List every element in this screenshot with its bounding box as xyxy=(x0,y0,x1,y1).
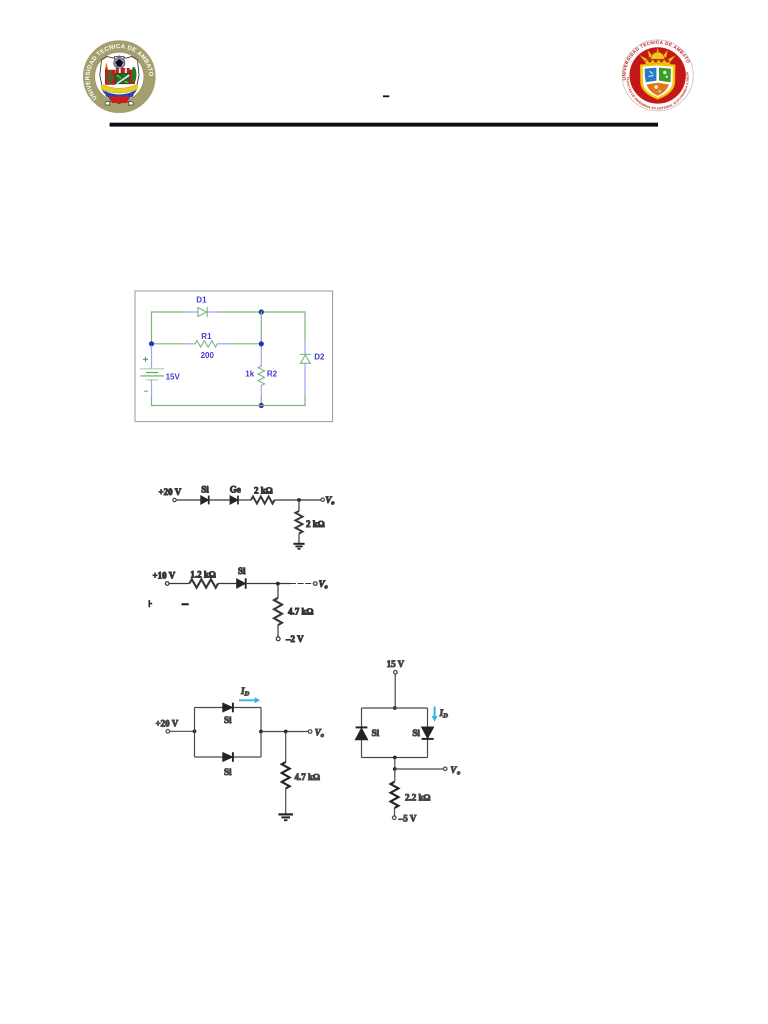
stray dash xyxy=(182,603,189,605)
shield outer gold xyxy=(640,63,675,99)
wire stub (blue) left of R1 xyxy=(184,343,195,345)
right tree xyxy=(132,67,137,84)
svg-text:–5 V: –5 V xyxy=(398,813,417,823)
wire resistor to bias terminal xyxy=(394,808,396,816)
svg-text:Vo: Vo xyxy=(319,579,328,591)
svg-text:2 kΩ: 2 kΩ xyxy=(306,519,325,529)
wire right vertical xyxy=(260,708,262,758)
battery plus mark xyxy=(144,357,148,361)
node junction xyxy=(297,498,301,502)
wire stub (blue) battery bottom lead xyxy=(151,380,153,398)
wire node down xyxy=(298,500,300,511)
wire: centre vertical bottom xyxy=(260,398,262,406)
wire stub (blue) above R2 xyxy=(260,348,262,366)
ground symbol xyxy=(278,814,293,820)
diode Si top (filled) xyxy=(223,703,233,713)
battery V1 15V xyxy=(140,369,164,380)
circuit 5: opposing parallel diodes with 15 V supply xyxy=(355,659,460,823)
wire left vertical xyxy=(361,708,363,758)
resistor 2 kΩ series xyxy=(251,496,275,503)
node junction left xyxy=(193,729,197,733)
svg-text:200: 200 xyxy=(201,351,215,360)
wire top branch xyxy=(195,707,262,709)
wire node to resistor xyxy=(394,769,396,782)
wire diode to node xyxy=(246,583,290,585)
wire Ge to resistor xyxy=(238,499,251,501)
resistor 2 kΩ load xyxy=(295,511,302,534)
resistor 2.2 kΩ xyxy=(391,782,399,808)
node junction output xyxy=(393,767,397,771)
circuit 3: series clipper with -2 V bias xyxy=(149,566,327,644)
wire stub (blue) right of D1 xyxy=(207,311,219,313)
node junction bottom xyxy=(393,756,397,760)
schematic frame box xyxy=(135,291,333,422)
wire right node to output xyxy=(261,731,308,733)
wire supply down xyxy=(394,674,396,708)
diode Si (filled) xyxy=(201,496,209,505)
shield outline xyxy=(100,56,139,104)
svg-text:2 kΩ: 2 kΩ xyxy=(254,486,273,496)
yellow sash xyxy=(101,84,138,93)
capital box at shield top xyxy=(115,56,124,59)
condor medallion xyxy=(114,57,125,68)
title dash xyxy=(383,95,389,97)
torch xyxy=(105,63,107,68)
wire stub (blue) right of R1 xyxy=(218,343,230,345)
circuit 2: series Si+Ge clipper xyxy=(159,485,335,549)
wire resistor to diode xyxy=(218,583,237,585)
input terminal xyxy=(173,498,176,501)
wire down to output node xyxy=(394,758,396,770)
crown battlement band xyxy=(645,60,669,65)
node junction top xyxy=(393,706,397,710)
svg-text:1k: 1k xyxy=(245,369,254,378)
scroll ends xyxy=(105,102,133,106)
svg-text:15 V: 15 V xyxy=(387,659,405,669)
diode Si bottom (filled) xyxy=(223,752,233,762)
node junction xyxy=(276,582,280,586)
output terminal Vo xyxy=(314,582,318,586)
current arrow (cyan) xyxy=(239,697,260,703)
svg-text:Si: Si xyxy=(412,728,420,738)
resistor R1 zigzag xyxy=(195,341,218,347)
node junction at source top xyxy=(149,341,154,346)
svg-text:Si: Si xyxy=(224,767,232,777)
resistor 4.7 kΩ xyxy=(274,598,282,625)
svg-text:Vo: Vo xyxy=(450,765,460,777)
wire resistor to bias terminal xyxy=(277,625,279,637)
svg-text:4.7 kΩ: 4.7 kΩ xyxy=(295,772,321,782)
svg-text:ID: ID xyxy=(240,686,250,698)
stray mark left xyxy=(149,600,152,607)
supply terminal xyxy=(394,671,398,675)
wire: source bottom corner xyxy=(151,398,153,406)
wire stub (blue) above D2 xyxy=(304,341,306,354)
wire: middle rail from source xyxy=(152,343,185,345)
university logo left (UTA crest) xyxy=(83,41,155,113)
sun rays xyxy=(640,48,676,63)
wire stub (blue) below D2 xyxy=(304,363,306,396)
right red frame xyxy=(130,70,135,84)
wire stub (blue) battery top lead xyxy=(151,346,153,369)
wire resistor to ground xyxy=(298,534,300,544)
left red panel with green cross xyxy=(105,70,115,85)
svg-text:+20 V: +20 V xyxy=(156,718,179,728)
svg-text:15V: 15V xyxy=(166,373,181,382)
wire node down xyxy=(285,732,287,763)
wire: right rail top xyxy=(304,312,306,341)
shield white inner xyxy=(643,66,673,97)
svg-text:–2 V: –2 V xyxy=(285,634,304,644)
circuit 4: parallel Si diodes network xyxy=(156,686,324,820)
output terminal Vo xyxy=(321,498,324,501)
output terminal Vo xyxy=(308,730,312,734)
wire: top rail right xyxy=(219,311,305,313)
wire input to Si xyxy=(176,499,200,501)
header horizontal rule xyxy=(110,123,658,127)
svg-text:+10 V: +10 V xyxy=(153,570,176,580)
svg-text:D2: D2 xyxy=(314,352,325,361)
wire stub (blue) left of D1 xyxy=(186,311,198,313)
wire: right rail bottom xyxy=(304,396,306,406)
bias terminal xyxy=(392,816,396,820)
orange base xyxy=(647,83,669,96)
red base tab xyxy=(110,97,130,104)
battery minus mark xyxy=(145,390,148,392)
blue drape xyxy=(104,91,135,100)
input terminal xyxy=(165,582,169,586)
wire output branch xyxy=(395,768,443,770)
wire node down xyxy=(277,584,279,598)
wire right vertical xyxy=(427,708,429,758)
wire input to resistor xyxy=(169,583,189,585)
wire left vertical xyxy=(194,708,196,758)
resistor R2 zigzag xyxy=(258,366,264,386)
svg-text:R1: R1 xyxy=(201,332,212,341)
diode Si (filled) xyxy=(237,578,246,588)
node junction top middle xyxy=(259,309,264,314)
svg-text:Si: Si xyxy=(372,728,380,738)
node junction right xyxy=(259,730,263,734)
wire bottom branch xyxy=(195,756,262,758)
input terminal xyxy=(166,730,170,734)
ground symbol xyxy=(293,544,304,549)
wire node to output xyxy=(290,583,313,585)
resistor 4.7 kΩ xyxy=(282,762,290,789)
wire bottom branch xyxy=(362,757,428,759)
wire: top rail xyxy=(152,312,187,344)
node junction bottom xyxy=(259,403,264,408)
diode Ge (filled) xyxy=(230,496,238,505)
wire input to left node xyxy=(170,730,195,732)
centre green board xyxy=(115,73,130,83)
output terminal Vo xyxy=(443,767,447,771)
node junction centre xyxy=(259,341,264,346)
wire resistor to ground xyxy=(285,789,287,814)
svg-text:Vo: Vo xyxy=(315,727,324,739)
node junction output branch xyxy=(284,730,288,734)
wire: centre vertical xyxy=(260,312,262,348)
current arrow (cyan, down) xyxy=(432,707,438,722)
diode Si left (filled, pointing up) xyxy=(355,727,367,739)
diode Si right (filled, pointing down) xyxy=(422,727,434,739)
university logo right (FISEI seal) xyxy=(0,0,693,111)
svg-text:R2: R2 xyxy=(267,369,278,378)
svg-text:+20 V: +20 V xyxy=(159,487,182,497)
diode D1 xyxy=(198,308,207,317)
resistor 1.2 kΩ xyxy=(189,579,218,587)
bias terminal xyxy=(276,637,280,641)
emblem marks xyxy=(649,71,654,76)
wire: middle rail to centre node xyxy=(230,343,262,345)
diode D2 (pointing up) xyxy=(300,354,310,363)
circuit 1: multisim clipper schematic xyxy=(135,291,333,422)
svg-text:Ge: Ge xyxy=(230,485,241,495)
wire: bottom rail xyxy=(152,405,306,407)
centre red band xyxy=(116,68,129,73)
wire top branch xyxy=(362,707,428,709)
svg-text:Si: Si xyxy=(201,485,209,495)
svg-text:ID: ID xyxy=(439,708,449,720)
svg-text:D1: D1 xyxy=(196,296,207,305)
wire resistor to node xyxy=(275,499,322,501)
sun dome xyxy=(651,52,665,59)
svg-text:4.7 kΩ: 4.7 kΩ xyxy=(288,607,314,617)
wire Si to Ge xyxy=(209,499,230,501)
svg-text:2.2 kΩ: 2.2 kΩ xyxy=(405,792,431,802)
green quarter xyxy=(659,68,671,83)
svg-text:Vo: Vo xyxy=(325,495,334,507)
svg-text:Si: Si xyxy=(224,715,232,725)
svg-text:1.2 kΩ: 1.2 kΩ xyxy=(190,569,216,579)
svg-text:Si: Si xyxy=(238,566,246,576)
blue quarter xyxy=(645,68,657,83)
wire stub (blue) below R2 xyxy=(260,386,262,399)
